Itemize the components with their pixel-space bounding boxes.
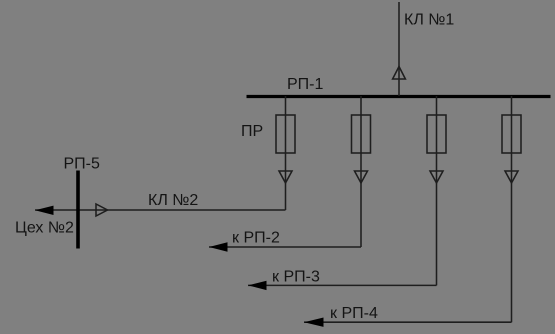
arrowhead branch 3 — [430, 171, 443, 183]
svg-text:ПР: ПР — [241, 123, 263, 140]
arrow filled to RP-3 — [248, 281, 267, 290]
wire KL1 incoming feeder — [398, 2, 400, 96]
svg-text:к РП-2: к РП-2 — [232, 230, 280, 247]
fuse branch 3 wire — [436, 96, 438, 285]
arrowhead cable terminator KL1 — [393, 67, 406, 80]
svg-text:к РП-4: к РП-4 — [330, 305, 378, 322]
fuse F4 — [502, 115, 521, 153]
arrow filled to RP-4 — [304, 318, 324, 327]
fuse branch 4 wire — [511, 96, 513, 322]
wire feeder to RP-3 — [248, 284, 437, 286]
svg-text:РП-5: РП-5 — [64, 156, 101, 173]
svg-text:к РП-3: к РП-3 — [272, 269, 320, 286]
wire KL2 to RP-5 — [35, 209, 286, 211]
fuse branch 2 wire — [360, 96, 362, 247]
wire feeder to RP-2 — [209, 246, 361, 248]
fuse PR branch 1 wire — [285, 96, 287, 210]
arrow filled to Ceh2 — [35, 206, 54, 215]
busbar RP-1 — [247, 95, 551, 98]
wire feeder to RP-4 — [304, 321, 512, 323]
svg-text:РП-1: РП-1 — [287, 76, 324, 93]
fuse F2 — [352, 115, 371, 153]
arrowhead branch 2 — [355, 171, 368, 183]
arrowhead open right on KL2 — [96, 204, 108, 216]
busbar RP-5 — [76, 171, 80, 249]
fuse PR F1 — [276, 115, 295, 153]
svg-text:Цех №2: Цех №2 — [15, 220, 74, 237]
arrow filled to RP-2 — [209, 242, 228, 251]
svg-text:КЛ №1: КЛ №1 — [404, 12, 454, 29]
fuse F3 — [427, 115, 446, 153]
arrowhead branch 4 — [505, 171, 518, 183]
svg-text:КЛ №2: КЛ №2 — [148, 192, 198, 209]
arrowhead branch 1 — [279, 171, 292, 183]
